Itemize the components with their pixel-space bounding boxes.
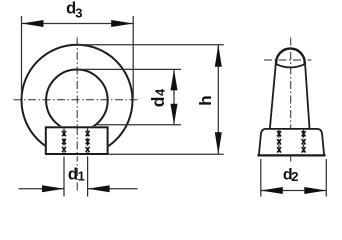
svg-text:4: 4 xyxy=(153,88,168,96)
svg-text:1: 1 xyxy=(78,169,85,184)
svg-text:h: h xyxy=(196,95,215,105)
svg-text:d: d xyxy=(68,165,78,183)
svg-text:d: d xyxy=(148,97,168,108)
svg-text:2: 2 xyxy=(291,169,298,184)
svg-text:3: 3 xyxy=(75,6,82,21)
